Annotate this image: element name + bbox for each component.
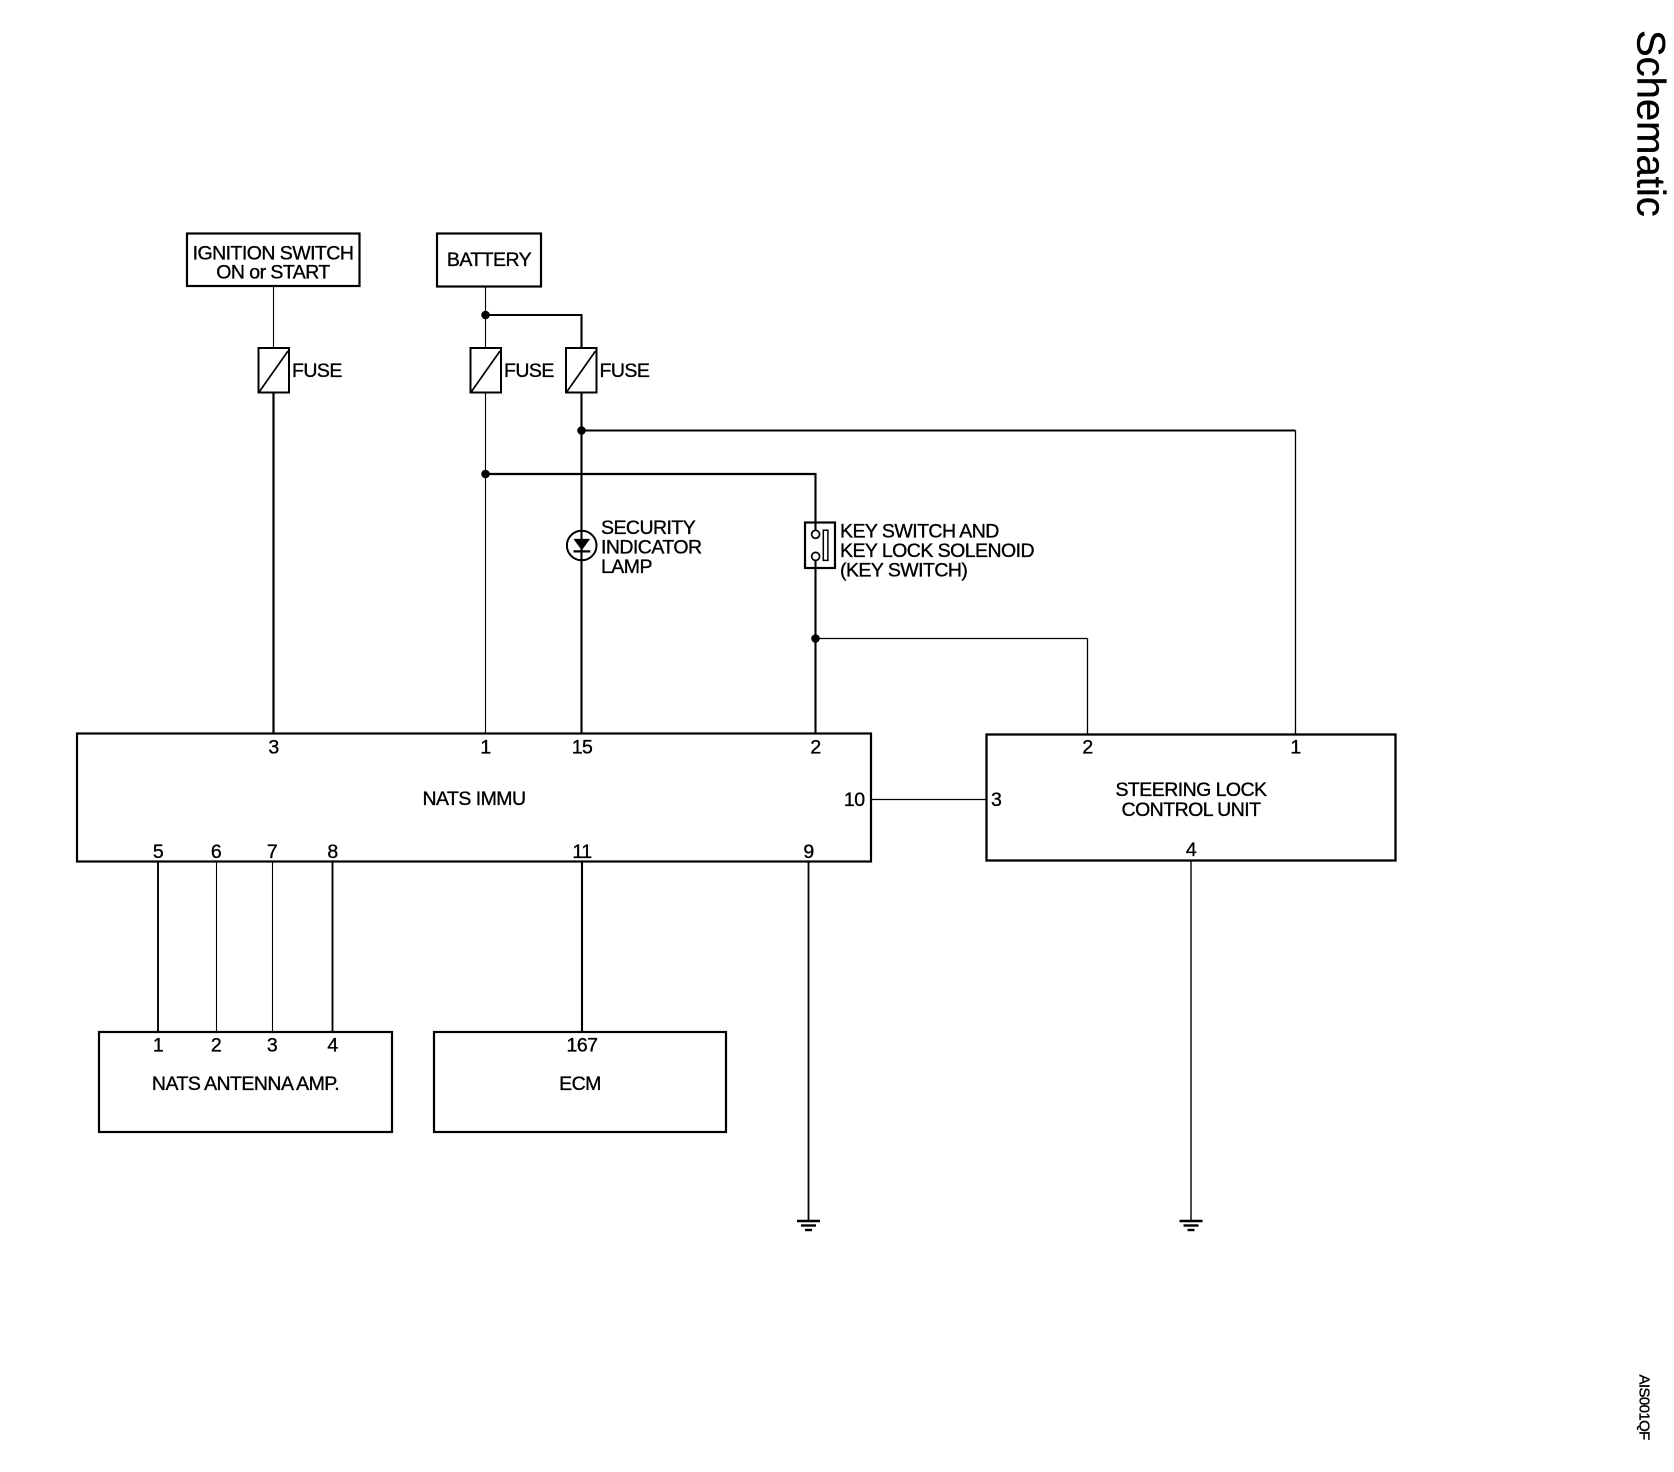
svg-text:FUSE: FUSE bbox=[600, 360, 650, 382]
svg-text:BATTERY: BATTERY bbox=[447, 249, 532, 271]
svg-text:NATS ANTENNA AMP.: NATS ANTENNA AMP. bbox=[152, 1073, 339, 1095]
fuse F1 (ignition) bbox=[259, 348, 343, 393]
svg-text:Schematic: Schematic bbox=[1629, 30, 1673, 217]
svg-text:(KEY SWITCH): (KEY SWITCH) bbox=[840, 560, 967, 582]
svg-text:4: 4 bbox=[1186, 839, 1197, 861]
svg-text:ON or START: ON or START bbox=[216, 262, 330, 284]
wire fuse F3 through lamp to NATS IMMU pin 15 (drawn under lamp circle) bbox=[580, 393, 582, 734]
svg-text:7: 7 bbox=[267, 841, 277, 863]
wire junction to key switch (horizontal) bbox=[485, 473, 816, 475]
ECM box bbox=[434, 1032, 726, 1132]
svg-text:1: 1 bbox=[480, 737, 490, 759]
wire down to steering lock pin 1 bbox=[1295, 431, 1297, 735]
wire NATS IMMU pin 11 to ECM pin 167 bbox=[581, 862, 583, 1033]
NATS antenna amp box bbox=[99, 1032, 392, 1132]
svg-text:LAMP: LAMP bbox=[601, 556, 652, 578]
wire key switch to NATS IMMU pin 2 bbox=[814, 568, 816, 734]
wire NATS IMMU pin 9 to ground bbox=[808, 862, 810, 1222]
junction node key switch output bbox=[811, 634, 820, 643]
wire battery junction to fuse F3 (horizontal) bbox=[485, 314, 583, 316]
svg-text:AIS001QF: AIS001QF bbox=[1636, 1375, 1653, 1441]
ground (NATS IMMU pin 9) bbox=[797, 1221, 820, 1230]
svg-text:11: 11 bbox=[572, 841, 591, 863]
steering lock control unit box bbox=[987, 735, 1396, 862]
wire steering lock pin 4 to ground bbox=[1190, 861, 1192, 1222]
svg-text:3: 3 bbox=[267, 1035, 277, 1057]
wire key switch junction to steering lock pin 2 (horizontal) bbox=[816, 638, 1088, 640]
svg-text:2: 2 bbox=[1082, 737, 1092, 759]
svg-text:2: 2 bbox=[810, 737, 820, 759]
fuse F3 (battery) bbox=[566, 348, 650, 393]
svg-text:5: 5 bbox=[153, 841, 164, 863]
battery box bbox=[437, 234, 541, 287]
wire into key switch top bbox=[814, 473, 816, 522]
svg-text:9: 9 bbox=[803, 841, 813, 863]
svg-text:STEERING LOCK: STEERING LOCK bbox=[1115, 779, 1267, 801]
key switch symbol bbox=[805, 521, 1034, 582]
svg-text:15: 15 bbox=[572, 737, 593, 759]
wire fuse F2 to NATS IMMU pin 1 bbox=[485, 393, 487, 734]
security indicator lamp (LED symbol) bbox=[567, 517, 702, 578]
ignition switch box bbox=[187, 234, 360, 287]
wire down into fuse F3 bbox=[580, 314, 582, 349]
wire fuse F1 to NATS IMMU pin 3 bbox=[272, 393, 274, 734]
wire NATS IMMU pin 6 to antenna pin 2 bbox=[216, 862, 218, 1033]
wire ignition box to fuse F1 bbox=[273, 286, 275, 349]
wire NATS IMMU pin 10 to steering lock pin 3 bbox=[871, 799, 987, 801]
svg-text:1: 1 bbox=[1290, 737, 1300, 759]
ground (steering lock pin 4) bbox=[1180, 1221, 1203, 1230]
wire down to steering lock pin 2 bbox=[1087, 639, 1089, 735]
svg-text:2: 2 bbox=[211, 1035, 221, 1057]
svg-text:10: 10 bbox=[844, 789, 865, 811]
NATS IMMU box bbox=[77, 734, 871, 864]
svg-text:FUSE: FUSE bbox=[504, 360, 554, 382]
svg-text:FUSE: FUSE bbox=[292, 360, 342, 382]
wire battery to fuse F2 bbox=[485, 287, 487, 349]
junction node fuse F2 output bbox=[481, 470, 490, 479]
svg-text:CONTROL UNIT: CONTROL UNIT bbox=[1122, 799, 1262, 821]
junction node battery/fuse F3 bbox=[481, 311, 490, 320]
junction node fuse F3 output bbox=[577, 426, 586, 435]
fuse F2 (battery) bbox=[471, 348, 555, 393]
svg-text:NATS IMMU: NATS IMMU bbox=[422, 788, 525, 810]
svg-text:3: 3 bbox=[991, 789, 1001, 811]
svg-text:4: 4 bbox=[327, 1035, 338, 1057]
svg-text:6: 6 bbox=[211, 841, 221, 863]
svg-text:167: 167 bbox=[567, 1035, 598, 1057]
svg-text:ECM: ECM bbox=[559, 1073, 601, 1095]
svg-text:3: 3 bbox=[268, 737, 278, 759]
svg-text:8: 8 bbox=[327, 841, 337, 863]
wire junction to steering lock pin 1 (horizontal) bbox=[582, 429, 1296, 431]
wire NATS IMMU pin 8 to antenna pin 4 bbox=[332, 862, 334, 1033]
svg-text:1: 1 bbox=[153, 1035, 163, 1057]
wire NATS IMMU pin 7 to antenna pin 3 bbox=[272, 862, 274, 1033]
wire NATS IMMU pin 5 to antenna pin 1 bbox=[157, 862, 159, 1033]
